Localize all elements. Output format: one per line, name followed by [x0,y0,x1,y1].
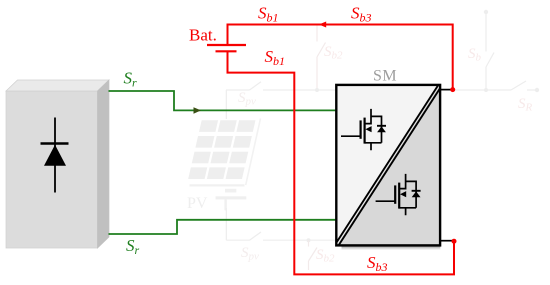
ghost vertical branch right with switch [486,12,494,90]
submodule SM box shadow [342,246,441,248]
submodule SM box border [336,85,440,246]
wire S_b1 top red from battery to right [228,25,453,90]
ghost switch S_b2 bottom vertical [309,240,318,270]
diode D1 [41,118,69,193]
ghost wire PV bottom vertical [225,208,227,240]
ghost PV panel [188,119,260,211]
node top right red dot [450,87,455,92]
svg-text:Bat.: Bat. [189,26,217,45]
ghost switch S_pv top lever [250,82,262,90]
ghost node bottom horizontal [307,238,311,242]
svg-text:PV: PV [187,195,208,212]
mosfet Q2 lower [376,174,421,215]
arrow on top red wire pointing left [319,22,326,28]
rectifier 3D box top face [6,80,109,91]
wire S_b1/S_b3 bottom red from battery bottom around to SM [228,51,455,274]
svg-text:SM: SM [373,68,397,85]
ghost wire top horizontal [226,89,537,91]
ghost node right branch bottom [484,88,488,92]
submodule SM box lower fill [337,86,439,245]
ghost wire bottom horizontal [226,239,338,241]
ghost node right end [535,88,539,92]
ghost node on top horizontal at S_b2 [315,88,319,92]
SM terminal stub bottom right [440,240,454,242]
SM terminal stub top right [440,89,453,91]
ghost switch S_b2 top vertical [317,26,326,91]
node bottom right red dot [452,239,457,244]
ghost node top of right branch [484,10,488,14]
ghost switch S_R lever on right horizontal [511,81,526,90]
submodule SM box upper fill [337,86,439,245]
rectifier 3D box front face [6,91,98,248]
mosfet Q1 upper [341,109,386,150]
submodule diagonal divider double line [336,86,438,243]
arrow on S_r top wire [194,107,202,114]
ghost switch S_pv bottom lever [250,232,262,240]
battery Bat. plates [207,45,246,51]
ghost wire PV top vertical [225,90,227,119]
rectifier 3D box right side face [98,80,110,248]
wire S_r bottom green [109,220,338,234]
wire S_r top green [109,91,338,110]
